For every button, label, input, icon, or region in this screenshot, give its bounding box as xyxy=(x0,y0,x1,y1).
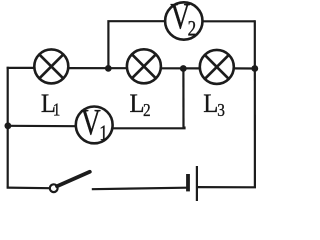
wire bottom left to switch xyxy=(7,187,50,190)
junction node between L1 and L2 xyxy=(105,65,112,72)
svg-text:1: 1 xyxy=(99,121,108,146)
svg-text:L: L xyxy=(203,88,218,118)
wire right rail xyxy=(254,20,256,187)
wire L3 to right rail xyxy=(234,67,256,69)
battery positive plate (long thin) xyxy=(196,166,198,201)
switch S pivot xyxy=(50,184,58,192)
lamp L2 xyxy=(127,49,161,83)
wire V2 right xyxy=(204,20,255,22)
voltmeter V1 xyxy=(76,103,113,146)
svg-text:3: 3 xyxy=(217,100,225,120)
wire L1 to L2 xyxy=(68,67,128,69)
wire V2 left branch xyxy=(108,21,164,68)
switch S lever xyxy=(57,172,90,186)
wire V1 left branch xyxy=(8,125,76,128)
voltmeter V2 xyxy=(165,0,202,41)
svg-text:V: V xyxy=(81,103,101,144)
wire L2 to L3 xyxy=(161,67,201,69)
wire battery to right rail xyxy=(198,186,257,188)
wire V1 right branch xyxy=(112,127,185,129)
wire left rail xyxy=(7,67,9,188)
svg-text:2: 2 xyxy=(188,16,197,41)
label L2 xyxy=(130,88,151,120)
battery negative plate (short thick) xyxy=(186,174,190,191)
label L3 xyxy=(203,88,225,120)
junction node between L2 and L3 xyxy=(180,65,187,72)
junction node right rail xyxy=(251,65,258,72)
wire junction2 down to V1 row xyxy=(182,69,184,129)
svg-text:1: 1 xyxy=(53,101,60,120)
wire switch to battery xyxy=(92,188,187,190)
label L1 xyxy=(41,88,60,120)
lamp L1 xyxy=(34,49,68,83)
lamp L3 xyxy=(200,50,234,84)
svg-text:2: 2 xyxy=(143,100,151,120)
wire main row left xyxy=(7,67,35,69)
junction node left rail V1 tap xyxy=(5,122,12,129)
